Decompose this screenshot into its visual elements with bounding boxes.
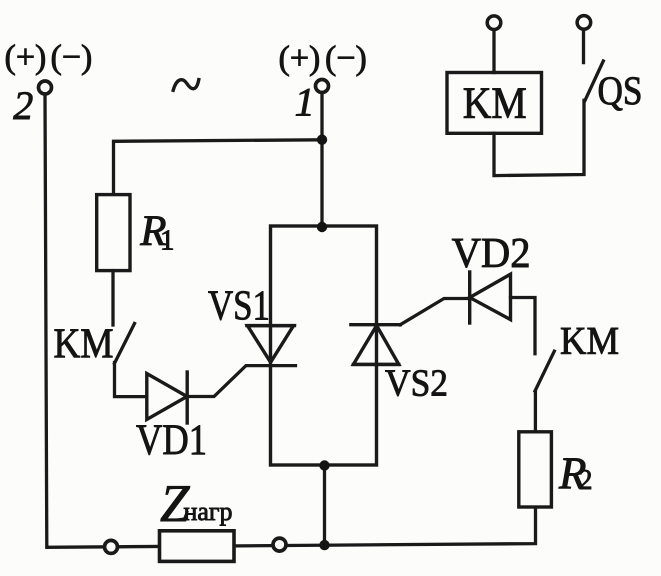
svg-text:(+): (+) — [279, 40, 321, 77]
svg-text:KM: KM — [54, 322, 114, 368]
svg-text:1: 1 — [160, 225, 175, 257]
svg-text:нагр: нагр — [184, 497, 233, 526]
svg-text:KM: KM — [560, 320, 619, 363]
svg-text:VD2: VD2 — [452, 231, 531, 277]
svg-text:KM: KM — [463, 79, 527, 128]
svg-text:VS2: VS2 — [385, 363, 448, 405]
svg-text:1: 1 — [295, 80, 315, 125]
svg-text:2: 2 — [579, 465, 593, 496]
svg-text:(−): (−) — [325, 40, 367, 77]
svg-text:(+): (+) — [5, 39, 47, 76]
svg-text:VD1: VD1 — [136, 417, 207, 464]
svg-text:(−): (−) — [51, 39, 93, 76]
svg-text:VS1: VS1 — [208, 284, 270, 330]
svg-text:QS: QS — [598, 68, 643, 113]
svg-text:2: 2 — [13, 83, 33, 128]
